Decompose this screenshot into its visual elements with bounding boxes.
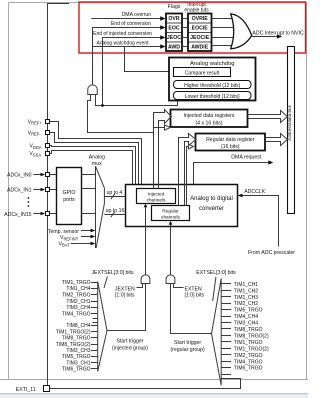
- wire end of conversion: [93, 28, 161, 86]
- svg-text:Injected data registers: Injected data registers: [183, 113, 234, 119]
- svg-text:TIM4_TRGO: TIM4_TRGO: [62, 312, 91, 318]
- svg-text:TIM3_CH3: TIM3_CH3: [66, 348, 90, 354]
- svg-text:ADCCLK: ADCCLK: [244, 189, 266, 195]
- bus arrow injected regs to address bus: [248, 111, 288, 123]
- wire ADCCLK: [238, 189, 279, 247]
- svg-text:TIM4_CH4: TIM4_CH4: [234, 314, 258, 320]
- svg-text:DMA request: DMA request: [231, 155, 262, 161]
- bus arrow regular reg to address bus: [265, 134, 287, 146]
- pad ADCx_IN0: [7, 172, 50, 178]
- interrupt section red box: [79, 2, 306, 53]
- svg-text:TIM3_CH1: TIM3_CH1: [66, 360, 90, 366]
- svg-text:GPIO: GPIO: [63, 190, 76, 196]
- svg-text:TIM1_TRGO: TIM1_TRGO: [62, 280, 91, 286]
- svg-text:VDDA: VDDA: [29, 144, 41, 150]
- svg-text:channels: channels: [147, 198, 166, 203]
- wire regular channels thin arrow: [187, 147, 189, 206]
- svg-text:TIM1_TRGO(2): TIM1_TRGO(2): [56, 329, 91, 335]
- svg-text:EOCIE: EOCIE: [192, 26, 209, 32]
- svg-text:up to 16: up to 16: [106, 208, 125, 214]
- svg-text:TIM3_CH4: TIM3_CH4: [234, 321, 258, 327]
- svg-text:TIM5_TRGO: TIM5_TRGO: [234, 308, 263, 314]
- svg-text:ADCx_IN1: ADCx_IN1: [7, 187, 32, 193]
- svg-text:TIM8_TRGO(2): TIM8_TRGO(2): [56, 342, 91, 348]
- svg-text:converter: converter: [199, 206, 224, 212]
- wire DMA overrun: [92, 18, 161, 20]
- analog mux: [96, 166, 105, 247]
- svg-text:TIM8_CH4: TIM8_CH4: [66, 323, 90, 329]
- svg-text:Analog watchdog event: Analog watchdog event: [97, 40, 150, 46]
- svg-text:OVRIE: OVRIE: [192, 16, 209, 22]
- injected data registers box: [171, 110, 248, 128]
- wire analog watchdog event: [93, 46, 161, 48]
- svg-text:Analog to digital: Analog to digital: [190, 196, 233, 202]
- svg-text:(16 bits): (16 bits): [221, 144, 240, 150]
- wire up to 4: [104, 190, 136, 199]
- svg-text:Injected: Injected: [148, 192, 165, 197]
- wires enable to OR gate: [212, 19, 234, 46]
- regular data register box: [196, 134, 266, 151]
- svg-text:Temp. sensor: Temp. sensor: [48, 229, 79, 235]
- svg-text:Start trigger: Start trigger: [174, 340, 201, 346]
- svg-text:TIM1_CH4: TIM1_CH4: [66, 286, 90, 292]
- JEXTEN label and wire: [115, 284, 143, 299]
- wire injected start trigger: [145, 207, 147, 276]
- wire ADC interrupt to NVIC: [252, 36, 279, 38]
- injected trigger mux: [98, 282, 107, 372]
- svg-text:TIM1_TRGO(2): TIM1_TRGO(2): [234, 346, 269, 352]
- regular channels box: [152, 206, 190, 221]
- wire injected mux to gate: [107, 284, 146, 331]
- wires pads to GPIO: [50, 175, 57, 214]
- svg-text:TIM2_TRGO: TIM2_TRGO: [62, 293, 91, 299]
- svg-text:DMA overrun: DMA overrun: [122, 12, 151, 18]
- regular trigger stubs: [221, 284, 231, 375]
- svg-text:TIM3_CH4: TIM3_CH4: [66, 305, 90, 311]
- svg-text:From ADC prescaler: From ADC prescaler: [248, 250, 295, 256]
- svg-text:TIM8_TRGO(2): TIM8_TRGO(2): [234, 334, 269, 340]
- address data bus bar: [287, 47, 294, 214]
- svg-text:TIM6_TRGO: TIM6_TRGO: [62, 367, 91, 373]
- wire VREF- to ADC: [50, 133, 139, 185]
- injected channels box: [137, 189, 176, 204]
- svg-text:EXTI_11: EXTI_11: [16, 387, 36, 393]
- svg-text:TIM8_TRGO: TIM8_TRGO: [234, 327, 263, 333]
- regular trigger list: [234, 282, 269, 372]
- EXTEN label and wire: [174, 284, 205, 299]
- wire regular start trigger: [170, 224, 172, 276]
- svg-text:Higher threshold (12 bits): Higher threshold (12 bits): [184, 83, 240, 89]
- left pad rail: [48, 4, 70, 389]
- wire VREF+ to ADC: [50, 122, 142, 185]
- svg-text:TIM5_TRGO: TIM5_TRGO: [62, 354, 91, 360]
- svg-text:ADCx_IN0: ADCx_IN0: [7, 172, 32, 178]
- svg-text:ports: ports: [63, 197, 75, 203]
- svg-text:mux: mux: [92, 161, 102, 167]
- pad VREF+: [28, 120, 50, 126]
- svg-text:End of injected conversion: End of injected conversion: [93, 31, 152, 37]
- arrowheads into flags box: [160, 16, 165, 49]
- compare result box: [174, 68, 231, 77]
- ADC converter box: [126, 185, 238, 227]
- svg-text:Regular: Regular: [162, 208, 179, 213]
- wires flags to enable: [182, 19, 188, 47]
- svg-text:VBAT: VBAT: [59, 242, 71, 248]
- svg-text:ADC Interrupt to NVIC: ADC Interrupt to NVIC: [252, 31, 304, 37]
- flags box: [166, 14, 182, 52]
- svg-text:OVR: OVR: [168, 16, 179, 22]
- wire EXTI_11 to regular mux: [50, 379, 241, 389]
- injected bus to injected data registers: [154, 110, 172, 189]
- svg-text:Lower threshold (12 bits): Lower threshold (12 bits): [185, 94, 240, 100]
- svg-text:ADCx_IN15: ADCx_IN15: [4, 212, 32, 218]
- svg-text:(4 x 16 bits): (4 x 16 bits): [195, 120, 222, 126]
- analog watchdog box: [169, 58, 256, 101]
- wire up to 16: [104, 208, 151, 217]
- svg-text:VREF-: VREF-: [28, 131, 42, 137]
- GPIO ports box: [57, 168, 82, 225]
- interrupt enable box: [188, 14, 212, 52]
- svg-text:TIM1_CH1: TIM1_CH1: [234, 282, 258, 288]
- svg-text:AWDIE: AWDIE: [191, 45, 209, 51]
- svg-text:JEXTSEL[3:0] bits: JEXTSEL[3:0] bits: [91, 270, 134, 276]
- svg-text:TIM8_TRGO: TIM8_TRGO: [62, 336, 91, 342]
- svg-text:[1:0] bits: [1:0] bits: [115, 293, 135, 299]
- svg-text:End of conversion: End of conversion: [111, 21, 151, 27]
- dots: [28, 197, 30, 207]
- svg-text:TIM1_CH2: TIM1_CH2: [234, 288, 258, 294]
- svg-text:Regular data register: Regular data register: [206, 137, 255, 143]
- svg-text:[1:0] bits: [1:0] bits: [185, 293, 205, 299]
- wire end of injected conversion: [103, 38, 161, 106]
- AWD gate G1: [88, 85, 97, 95]
- svg-text:TIM2_TRGO: TIM2_TRGO: [234, 353, 263, 359]
- svg-text:VSSA: VSSA: [29, 151, 41, 157]
- svg-text:EXTSEL[3:0] bits: EXTSEL[3:0] bits: [196, 270, 236, 276]
- svg-text:enable bits: enable bits: [184, 7, 209, 13]
- svg-text:AWD: AWD: [168, 45, 180, 51]
- pad VSSA: [29, 151, 49, 157]
- svg-text:JEOCIE: JEOCIE: [190, 35, 210, 41]
- wire DMA request: [194, 163, 270, 185]
- junction dot: [101, 104, 104, 107]
- temp sensor input: [48, 229, 95, 235]
- svg-text:Flags: Flags: [168, 4, 181, 10]
- trigger gate G2 injected: [141, 275, 150, 284]
- pad VDDA: [29, 144, 49, 150]
- injected trigger list: [56, 280, 91, 373]
- bottom page band: [0, 394, 308, 398]
- regular bus to regular data register: [179, 134, 197, 206]
- wire VDDA to ADC: [50, 146, 136, 185]
- wire AWD gate input B: [96, 95, 178, 106]
- svg-text:TIM2_CH1: TIM2_CH1: [66, 299, 90, 305]
- wires GPIO to mux: [82, 175, 96, 214]
- OR gate U1: [231, 14, 252, 49]
- pad VREF-: [28, 131, 50, 137]
- wire VSSA to ADC: [50, 151, 133, 185]
- pad ADCx_IN1: [7, 187, 50, 193]
- pad ADCx_IN15: [4, 212, 49, 218]
- svg-text:Analog watchdog: Analog watchdog: [190, 61, 234, 67]
- wire regular mux to gate: [171, 284, 212, 334]
- wire watchdog net to injected registers: [88, 95, 165, 133]
- svg-text:TIM1_CH3: TIM1_CH3: [234, 295, 258, 301]
- wire EXTSEL select: [213, 277, 216, 301]
- svg-text:(regular group): (regular group): [170, 347, 205, 353]
- svg-text:channels: channels: [161, 214, 180, 219]
- pad EXTI_11: [16, 386, 50, 394]
- svg-text:Compare result: Compare result: [185, 71, 220, 77]
- svg-text:TIM1_TRGO: TIM1_TRGO: [234, 340, 263, 346]
- higher threshold box: [174, 81, 252, 89]
- VREFINT input: [60, 235, 95, 242]
- svg-text:JEOC: JEOC: [167, 35, 181, 41]
- svg-text:(injected group): (injected group): [112, 346, 148, 352]
- svg-text:VREF+: VREF+: [28, 120, 43, 126]
- svg-text:VREFINT: VREFINT: [60, 235, 79, 241]
- wire JEXTSEL select: [104, 277, 107, 289]
- svg-text:EXTEN: EXTEN: [185, 286, 203, 292]
- svg-text:TIM4_TRGO: TIM4_TRGO: [234, 359, 263, 365]
- svg-text:TIM6_TRGO: TIM6_TRGO: [234, 366, 263, 372]
- svg-text:JEXTEN: JEXTEN: [115, 286, 135, 292]
- svg-text:TIM2_CH2: TIM2_CH2: [234, 301, 258, 307]
- lower threshold box: [174, 92, 252, 100]
- VBAT input: [59, 242, 96, 248]
- regular trigger mux: [212, 279, 222, 386]
- svg-text:Analog: Analog: [89, 155, 105, 161]
- svg-text:Address/data bus: Address/data bus: [287, 104, 292, 140]
- svg-text:EOC: EOC: [168, 26, 179, 32]
- trigger gate G3 regular: [166, 275, 175, 284]
- injected trigger stubs: [91, 283, 98, 369]
- svg-text:Start trigger: Start trigger: [116, 339, 143, 345]
- wire compare result branch: [125, 47, 174, 72]
